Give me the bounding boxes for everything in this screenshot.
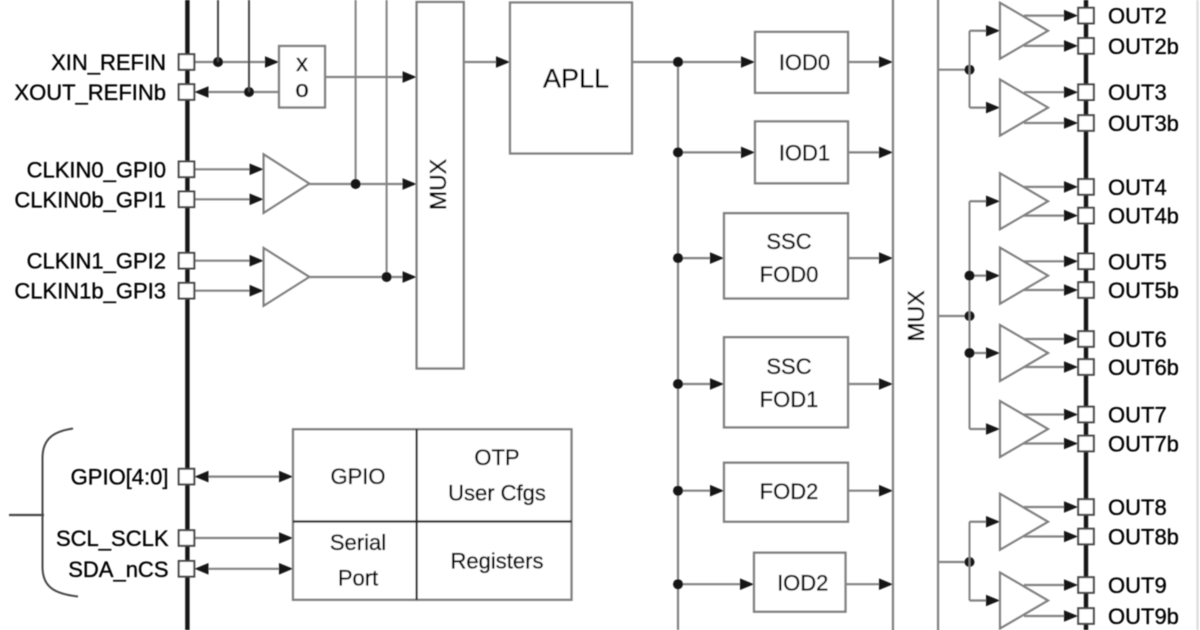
- svg-text:SSC: SSC: [766, 229, 811, 254]
- junction node on XOUT wire: [244, 87, 254, 97]
- wire XO box to XOUT_REFINb pin: [201, 91, 281, 93]
- pin SDA_nCS: [179, 561, 195, 577]
- junction node feed: [965, 557, 975, 567]
- wire stub into brace: [9, 514, 44, 516]
- arrow IOD1 output into output MUX: [879, 147, 893, 159]
- arrow XO output into MUX: [403, 71, 417, 83]
- arrow into FOD2: [710, 485, 724, 497]
- vertical feed wire: [969, 201, 971, 429]
- arrow FOD2 output into output MUX: [879, 485, 893, 497]
- wire CLKIN0 buffer output to MUX: [309, 183, 405, 185]
- wire distribution to IOD2: [678, 583, 742, 585]
- wire IOD1 output to output MUX: [848, 151, 881, 153]
- pin XOUT_REFINb: [179, 84, 195, 100]
- arrow into output buffer: [986, 102, 1000, 114]
- junction node on feed wire: [965, 271, 975, 281]
- svg-text:GPIO: GPIO: [330, 464, 385, 489]
- arrow into OUT5b pin: [1064, 284, 1078, 296]
- pin OUT6: [1078, 331, 1094, 347]
- svg-text:CLKIN1b_GPI3: CLKIN1b_GPI3: [14, 279, 166, 304]
- arrow into output buffer: [986, 516, 1000, 528]
- output buffer OUT8 (triangle): [1000, 494, 1048, 550]
- arrow into OUT8 pin: [1064, 501, 1078, 513]
- wire feed to output buffer at y=107.6: [970, 106, 989, 108]
- arrow SSC FOD0 output into output MUX: [879, 252, 893, 264]
- wire SCL_SCLK to Serial Port: [194, 537, 282, 539]
- pin OUT4: [1078, 179, 1094, 195]
- arrow IOD0 output into output MUX: [879, 56, 893, 68]
- svg-text:OUT3: OUT3: [1108, 80, 1167, 105]
- wire CLKIN1b_GPI3 to input buffer: [194, 290, 252, 292]
- arrow IOD2 output into output MUX: [879, 578, 893, 590]
- arrow into OUT7 pin: [1064, 409, 1078, 421]
- wire distribution to IOD1: [678, 151, 743, 153]
- junction node IOD2 input: [673, 579, 683, 589]
- brace for serial pins: [43, 429, 79, 597]
- wire output MUX feed at y=69.7: [938, 69, 970, 71]
- svg-text:IOD1: IOD1: [779, 140, 830, 165]
- wire buffer to OUT3b pin: [1024, 122, 1066, 124]
- wire feed to output buffer at y=353.0: [970, 352, 989, 354]
- arrow into OUT8b pin: [1064, 531, 1078, 543]
- svg-text:OUT9b: OUT9b: [1108, 604, 1179, 629]
- wire buffer to OUT7 pin: [1024, 413, 1066, 415]
- svg-text:OUT5b: OUT5b: [1108, 278, 1179, 303]
- table vertical divider: [416, 429, 418, 600]
- wire buffer to OUT6 pin: [1024, 338, 1066, 340]
- wire SSC FOD1 output to output MUX: [848, 383, 881, 385]
- arrow into OUT9 pin: [1064, 579, 1078, 591]
- svg-text:FOD1: FOD1: [760, 387, 819, 412]
- arrow into XO box: [265, 56, 279, 68]
- arrow into OUT3 pin: [1064, 86, 1078, 98]
- output buffer OUT6 (triangle): [1000, 325, 1048, 381]
- IOD0 box: [755, 32, 848, 93]
- junction node on XIN wire: [213, 57, 223, 67]
- svg-text:OTP: OTP: [474, 445, 519, 470]
- arrow into SSC FOD0: [710, 252, 724, 264]
- svg-text:OUT7: OUT7: [1108, 403, 1167, 428]
- svg-text:SSC: SSC: [766, 354, 811, 379]
- pin CLKIN1_GPI2: [179, 253, 195, 269]
- wire FOD2 output to output MUX: [848, 490, 881, 492]
- arrow into OUT2b pin: [1064, 40, 1078, 52]
- input MUX box: [417, 2, 464, 369]
- wire feed to output buffer at y=429.0: [970, 428, 989, 430]
- wire feed to output buffer at y=521.75: [970, 521, 989, 523]
- arrow into output buffer: [986, 195, 1000, 207]
- input buffer CLKIN0 (triangle): [264, 154, 310, 213]
- wire output MUX feed at y=562: [938, 561, 970, 563]
- APLL box: [510, 3, 632, 154]
- arrow SCL into Serial Port box: [279, 532, 293, 544]
- arrow into OUT4b pin: [1064, 210, 1078, 222]
- svg-text:Serial: Serial: [330, 530, 386, 555]
- arrow CLKIN1b into buffer: [250, 285, 264, 297]
- pin OUT2: [1078, 8, 1094, 24]
- junction node on feed wire: [965, 348, 975, 358]
- FOD2 box: [724, 463, 848, 522]
- arrow into OUT2 pin: [1064, 10, 1078, 22]
- arrow into output buffer: [986, 270, 1000, 282]
- pin OUT5: [1078, 254, 1094, 270]
- junction node FOD2 input: [673, 486, 683, 496]
- wire CLKIN1_GPI2 to input buffer: [194, 260, 252, 262]
- junction node SSC FOD0 input: [673, 253, 683, 263]
- svg-text:OUT4: OUT4: [1108, 175, 1167, 200]
- svg-text:OUT8: OUT8: [1108, 495, 1167, 520]
- pin SCL_SCLK: [179, 530, 195, 546]
- arrow CLKIN0 buffer output into MUX: [403, 178, 417, 190]
- pin OUT7b: [1078, 436, 1094, 452]
- pin OUT4b: [1078, 208, 1094, 224]
- svg-text:OUT6: OUT6: [1108, 327, 1167, 352]
- wire IOD0 output to output MUX: [848, 61, 881, 63]
- svg-text:OUT3b: OUT3b: [1108, 111, 1179, 136]
- arrow into OUT9b pin: [1064, 610, 1078, 622]
- svg-text:XOUT_REFINb: XOUT_REFINb: [14, 80, 166, 105]
- wire buffer to OUT4 pin: [1024, 186, 1066, 188]
- wire IOD2 output to output MUX: [846, 583, 882, 585]
- vertical wire from top to XOUT node: [248, 0, 250, 92]
- arrow SDA toward pin: [195, 563, 209, 575]
- svg-text:OUT9: OUT9: [1108, 573, 1167, 598]
- svg-text:OUT2: OUT2: [1108, 4, 1167, 29]
- pin OUT5b: [1078, 282, 1094, 298]
- arrow into OUT7b pin: [1064, 438, 1078, 450]
- wire buffer to OUT2b pin: [1024, 45, 1066, 47]
- pin OUT6b: [1078, 359, 1094, 375]
- arrow SDA into Serial Port box: [279, 563, 293, 575]
- IOD1 box: [755, 121, 848, 183]
- wire buffer to OUT6b pin: [1024, 366, 1066, 368]
- arrow into IOD1: [741, 147, 755, 159]
- wire feed to output buffer at y=201.25: [970, 200, 989, 202]
- arrow into OUT3b pin: [1064, 117, 1078, 129]
- pin OUT9b: [1078, 608, 1094, 624]
- svg-text:OUT5: OUT5: [1108, 249, 1167, 274]
- svg-text:SDA_nCS: SDA_nCS: [68, 557, 168, 582]
- arrow GPIO into GPIO box: [279, 471, 293, 483]
- wire CLKIN0b_GPI1 to input buffer: [194, 198, 252, 200]
- vertical wire from top to CLKIN0 buffer output node: [355, 0, 357, 184]
- wire XIN_REFIN to XO box: [194, 61, 268, 63]
- svg-text:IOD0: IOD0: [779, 50, 830, 75]
- junction node APLL output: [673, 57, 683, 67]
- wire buffer to OUT8b pin: [1024, 535, 1066, 537]
- svg-text:Registers: Registers: [451, 549, 544, 574]
- arrow into SSC FOD1: [710, 378, 724, 390]
- svg-text:SCL_SCLK: SCL_SCLK: [56, 526, 169, 551]
- wire buffer to OUT5b pin: [1024, 289, 1066, 291]
- svg-text:GPIO[4:0]: GPIO[4:0]: [71, 465, 169, 490]
- wire buffer to OUT7b pin: [1024, 442, 1066, 444]
- wire buffer to OUT9 pin: [1024, 584, 1066, 586]
- wire feed to output buffer at y=30.75: [970, 30, 989, 32]
- arrow into output buffer: [986, 25, 1000, 37]
- svg-text:User Cfgs: User Cfgs: [448, 481, 546, 506]
- arrow SSC FOD1 output into output MUX: [879, 378, 893, 390]
- arrow into XOUT_REFINb pin: [195, 86, 209, 98]
- arrow into OUT6b pin: [1064, 361, 1078, 373]
- wire buffer to OUT9b pin: [1024, 615, 1066, 617]
- svg-text:MUX: MUX: [903, 290, 929, 341]
- pin CLKIN0_GPI0: [179, 162, 195, 178]
- wire XO output to MUX: [325, 76, 405, 78]
- wire SSC FOD0 output to output MUX: [848, 257, 881, 259]
- wire buffer to OUT2 pin: [1024, 15, 1066, 17]
- junction node SSC FOD1 input: [673, 379, 683, 389]
- table horizontal divider: [293, 520, 572, 522]
- arrow CLKIN1 into buffer: [250, 255, 264, 267]
- arrow into APLL: [496, 56, 510, 68]
- svg-text:OUT2b: OUT2b: [1108, 34, 1179, 59]
- junction node IOD0 input: [673, 57, 683, 67]
- pin CLKIN1b_GPI3: [179, 283, 195, 299]
- wire GPIO bidirectional: [203, 476, 286, 478]
- arrow into IOD0: [741, 56, 755, 68]
- pin OUT8: [1078, 499, 1094, 515]
- arrow into output buffer: [986, 347, 1000, 359]
- wire MUX output to APLL: [464, 61, 498, 63]
- SSC FOD1 box: [724, 337, 848, 427]
- svg-text:CLKIN0b_GPI1: CLKIN0b_GPI1: [14, 187, 166, 212]
- arrow CLKIN1 buffer output into MUX: [403, 271, 417, 283]
- input buffer CLKIN1 (triangle): [264, 248, 310, 306]
- vertical wire from top to XIN node: [217, 0, 219, 62]
- wire output MUX feed at y=316: [938, 315, 970, 317]
- svg-text:APLL: APLL: [543, 64, 609, 94]
- svg-text:x: x: [296, 50, 308, 77]
- svg-text:CLKIN1_GPI2: CLKIN1_GPI2: [27, 249, 166, 274]
- junction node IOD1 input: [673, 147, 683, 157]
- wire APLL output to distribution node: [632, 61, 678, 63]
- vertical wire from top to CLKIN1 buffer output node: [386, 0, 388, 277]
- junction node feed: [965, 65, 975, 75]
- wire buffer to OUT5 pin: [1024, 260, 1066, 262]
- output buffer OUT5 (triangle): [1000, 248, 1048, 304]
- arrow into OUT5 pin: [1064, 256, 1078, 268]
- wire distribution to SSC FOD1: [678, 383, 712, 385]
- wire distribution to IOD0: [678, 61, 743, 63]
- arrow into OUT6 pin: [1064, 333, 1078, 345]
- svg-text:OUT7b: OUT7b: [1108, 432, 1179, 457]
- pin GPIO[4:0]: [179, 469, 195, 485]
- vertical distribution wire: [677, 62, 679, 630]
- output buffer OUT7 (triangle): [1000, 401, 1048, 457]
- svg-text:OUT4b: OUT4b: [1108, 204, 1179, 229]
- crystal oscillator XO box: [279, 46, 325, 108]
- junction node feed: [965, 311, 975, 321]
- junction node CLKIN0 buffer output: [351, 179, 361, 189]
- pin OUT2b: [1078, 38, 1094, 54]
- wire CLKIN1 buffer output to MUX: [309, 276, 405, 278]
- wire CLKIN0_GPI0 to input buffer: [194, 168, 252, 170]
- figure right border: [1196, 0, 1198, 630]
- pin OUT7: [1078, 407, 1094, 423]
- arrow into IOD2: [740, 578, 754, 590]
- svg-text:Port: Port: [338, 566, 378, 591]
- pin XIN_REFIN: [179, 54, 195, 70]
- wire buffer to OUT8 pin: [1024, 506, 1066, 508]
- pin OUT9: [1078, 577, 1094, 593]
- SSC FOD0 box: [724, 213, 848, 298]
- arrow into output buffer: [986, 423, 1000, 435]
- output buffer OUT9 (triangle): [1000, 573, 1048, 629]
- svg-text:o: o: [295, 76, 308, 103]
- wire SDA bidirectional: [203, 568, 286, 570]
- svg-text:XIN_REFIN: XIN_REFIN: [51, 50, 166, 75]
- svg-text:CLKIN0_GPI0: CLKIN0_GPI0: [27, 157, 166, 182]
- wire feed to output buffer at y=275.65: [970, 275, 989, 277]
- svg-text:OUT8b: OUT8b: [1108, 525, 1179, 550]
- pin OUT3: [1078, 84, 1094, 100]
- output MUX box: [893, 0, 938, 630]
- wire distribution to FOD2: [678, 490, 712, 492]
- arrow GPIO toward pin: [195, 471, 209, 483]
- vertical feed wire: [969, 31, 971, 108]
- wire distribution to SSC FOD0: [678, 257, 712, 259]
- arrow CLKIN0b into buffer: [250, 194, 264, 206]
- junction node CLKIN1 buffer output: [382, 272, 392, 282]
- wire buffer to OUT3 pin: [1024, 91, 1066, 93]
- svg-text:IOD2: IOD2: [777, 570, 828, 595]
- arrow CLKIN0 into buffer: [250, 164, 264, 176]
- pin OUT3b: [1078, 115, 1094, 131]
- arrow into OUT4 pin: [1064, 181, 1078, 193]
- IOD2 box: [754, 553, 846, 612]
- svg-text:FOD0: FOD0: [760, 262, 819, 287]
- left chip boundary: [185, 0, 189, 630]
- svg-text:FOD2: FOD2: [760, 479, 819, 504]
- output buffer OUT2 (triangle): [1000, 3, 1048, 59]
- svg-text:OUT6b: OUT6b: [1108, 355, 1179, 380]
- arrow into output buffer: [986, 595, 1000, 607]
- right chip boundary: [1084, 0, 1088, 630]
- vertical feed wire: [969, 522, 971, 601]
- wire feed to output buffer at y=600.5: [970, 599, 989, 601]
- output buffer OUT4 (triangle): [1000, 173, 1048, 229]
- GPIO / OTP / Serial Port / Registers block: [293, 429, 572, 600]
- svg-text:MUX: MUX: [425, 159, 451, 210]
- pin CLKIN0b_GPI1: [179, 192, 195, 208]
- pin OUT8b: [1078, 529, 1094, 545]
- output buffer OUT3 (triangle): [1000, 80, 1048, 136]
- wire buffer to OUT4b pin: [1024, 215, 1066, 217]
